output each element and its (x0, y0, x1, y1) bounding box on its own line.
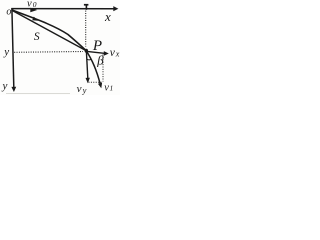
dashed rectangle right side (102, 55, 104, 82)
node P (85, 49, 88, 53)
direction arrowhead on trajectory (32, 17, 38, 21)
svg-text:y: y (82, 85, 87, 95)
svg-text:x: x (115, 49, 120, 58)
svg-text:S: S (34, 31, 40, 43)
svg-text:y: y (2, 80, 8, 92)
svg-text:y: y (3, 46, 9, 58)
dashed rectangle bottom side (89, 81, 103, 83)
y-axis (11, 8, 16, 92)
dotted line P to x-axis (85, 11, 87, 47)
svg-text:v: v (77, 83, 82, 95)
trajectory parabola (12, 10, 87, 51)
v resultant arrow (87, 51, 103, 88)
svg-text:x: x (104, 9, 111, 24)
vy arrow (86, 52, 90, 84)
tick T on x-axis at P abscissa (84, 4, 89, 10)
beta angle arc (87, 59, 91, 60)
svg-text:1: 1 (110, 83, 114, 92)
x-axis (11, 6, 118, 11)
svg-text:0: 0 (33, 0, 37, 9)
displacement chord S (12, 10, 87, 51)
faint print-through line (6, 92, 70, 94)
v0 arrowhead (30, 8, 37, 13)
svg-text:o: o (6, 6, 11, 17)
vx arrow (87, 51, 109, 56)
dotted line P to y-axis (14, 51, 83, 54)
